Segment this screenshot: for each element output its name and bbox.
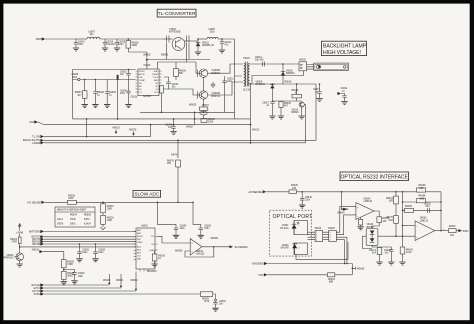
- svg-text:BUZ71A: BUZ71A: [212, 95, 221, 98]
- svg-text:150R: 150R: [70, 219, 76, 221]
- diode V6004: [256, 82, 275, 101]
- diode pair V6046: [366, 224, 378, 245]
- svg-text:LM6132: LM6132: [364, 201, 373, 203]
- resistor R6023: [10, 234, 21, 247]
- svg-text:+5VAB: +5VAB: [32, 141, 40, 145]
- svg-text:R6007: R6007: [202, 105, 209, 107]
- wire op-amp feedback: [185, 247, 229, 257]
- svg-text:HIGH VOLTAGE!: HIGH VOLTAGE!: [323, 50, 361, 56]
- node BATTGROUP input: [29, 230, 136, 234]
- wire collector line: [20, 246, 136, 248]
- table MAIN PCA VERSION IDENT: [55, 207, 95, 227]
- svg-text:100n: 100n: [78, 276, 84, 278]
- svg-text:XP6A E10: XP6A E10: [3, 257, 14, 260]
- op-amp D6063: [415, 218, 435, 241]
- svg-text:+5VAB: +5VAB: [16, 231, 24, 234]
- wire snubber top bus: [272, 100, 301, 102]
- svg-text:W6022: W6022: [103, 280, 111, 282]
- svg-text:100n: 100n: [118, 44, 124, 46]
- svg-text:68R: 68R: [329, 281, 334, 283]
- svg-text:COL2: COL2: [153, 77, 159, 79]
- svg-text:LM6132: LM6132: [420, 220, 429, 222]
- diode V6002: [281, 63, 296, 84]
- resistor R6059: [200, 292, 215, 303]
- svg-text:MTP3055E: MTP3055E: [169, 32, 181, 34]
- svg-text:BUZ71A: BUZ71A: [212, 72, 221, 75]
- svg-text:56K: 56K: [179, 73, 184, 75]
- capacitor C6031b: [76, 243, 89, 262]
- svg-text:BCR8NC: BCR8NC: [256, 84, 266, 86]
- capacitor C6001: [92, 79, 104, 108]
- wire MOSFET sources to rail: [203, 77, 205, 107]
- svg-text:W6012: W6012: [131, 280, 139, 282]
- svg-text:100n: 100n: [180, 228, 186, 230]
- svg-text:R6428: R6428: [405, 206, 412, 208]
- wire: [100, 38, 117, 40]
- transistor Q6002: [3, 246, 23, 267]
- resistor R6471: [362, 245, 382, 265]
- resistor R6467: [449, 226, 459, 237]
- node RETASIST input: [32, 240, 136, 244]
- svg-text:X6040: X6040: [315, 228, 322, 230]
- svg-text:W6033: W6033: [112, 127, 120, 129]
- svg-text:W6013: W6013: [252, 130, 260, 132]
- svg-text:100n: 100n: [98, 252, 104, 254]
- svg-text:100n: 100n: [120, 93, 126, 95]
- svg-text:4: 4: [330, 240, 331, 242]
- resistor R6025b: [278, 101, 292, 119]
- transistor VQ6008: [198, 69, 221, 77]
- svg-text:TEMP: TEMP: [137, 242, 143, 244]
- svg-text:BCUR: BCUR: [137, 236, 143, 238]
- node SHDCLK input: [34, 292, 201, 296]
- led V6406: [280, 243, 307, 255]
- svg-text:R6034: R6034: [70, 214, 77, 216]
- svg-text:4K7: 4K7: [284, 106, 289, 108]
- op-amp U6003: [190, 239, 205, 256]
- svg-text:47u/10V: 47u/10V: [106, 44, 115, 46]
- node EXT.CLK input: [34, 286, 121, 290]
- wire: [117, 38, 163, 40]
- svg-text:150R: 150R: [67, 264, 73, 266]
- node BATTEMP input: [32, 242, 136, 246]
- transistor V6010: [292, 102, 305, 119]
- resistor R6011: [160, 85, 164, 113]
- wire gate drive Q1: [196, 62, 199, 73]
- resistor R6076 riser: [167, 140, 180, 204]
- svg-text:C6016: C6016: [131, 97, 138, 99]
- connector X6040: [308, 228, 323, 242]
- resistor R6064: [327, 264, 352, 284]
- wire IC left feed: [73, 70, 136, 119]
- wire lower rail: [73, 118, 251, 120]
- capacitor C6006: [120, 80, 138, 108]
- op-amp-ic U6000 SG3527: [136, 65, 162, 98]
- svg-text:2740: 2740: [204, 301, 210, 303]
- capacitor C6010: [73, 39, 86, 51]
- svg-text:SLOW ADC: SLOW ADC: [134, 192, 159, 197]
- wire ADC filter risers: [157, 202, 200, 228]
- svg-text:ROSC: ROSC: [139, 71, 145, 73]
- photodiode V6401: [280, 221, 308, 235]
- node W6045 stub: [337, 191, 347, 215]
- connector X6000: [299, 59, 307, 70]
- capacitor C6013: [219, 38, 232, 53]
- wire led return: [296, 242, 348, 260]
- svg-text:100u: 100u: [210, 32, 216, 34]
- svg-text:33p 3KV: 33p 3KV: [255, 59, 264, 61]
- resistor R6423: [386, 191, 398, 216]
- svg-text:CP-KSA: CP-KSA: [280, 227, 289, 230]
- node BATTVOLT input: [31, 235, 136, 239]
- inductor L6007: [87, 32, 100, 39]
- node +5VAB input: [32, 105, 306, 145]
- resistor R6034: [101, 202, 115, 213]
- capacitor C6012: [255, 57, 264, 67]
- resistor R6468 feedback row: [402, 196, 441, 203]
- resistor R6036: [68, 196, 77, 205]
- resistor R6016: [151, 250, 165, 267]
- op-amp D6043: [356, 199, 374, 220]
- resistor R6049: [357, 217, 363, 230]
- wire VBAT rail: [76, 38, 87, 40]
- resistor R6470: [386, 216, 398, 238]
- wire main right rail: [402, 192, 404, 247]
- svg-text:M6002: M6002: [161, 55, 169, 57]
- node W6033 stub: [112, 127, 120, 134]
- svg-text:MA8051-30: MA8051-30: [202, 44, 215, 47]
- svg-text:T6000: T6000: [243, 58, 250, 60]
- resistor R6044: [372, 211, 390, 229]
- svg-text:R6018: R6018: [285, 82, 292, 84]
- capacitor C6017: [313, 83, 323, 101]
- svg-text:GND: GND: [154, 71, 159, 73]
- node TXD line: [258, 273, 327, 277]
- svg-text:W6021: W6021: [116, 280, 124, 282]
- wire op-amp2 inputs: [403, 225, 416, 227]
- svg-text:BR520: BR520: [292, 112, 300, 114]
- svg-text:51R: 51R: [389, 220, 394, 222]
- wire op-amp2 output: [435, 230, 449, 232]
- node W6078 stub: [129, 129, 137, 135]
- capacitor C6015: [120, 69, 131, 80]
- wire internal ground rail: [140, 111, 235, 113]
- svg-text:+IN: +IN: [139, 77, 143, 79]
- svg-text:15K: 15K: [167, 163, 172, 165]
- node +5VSENS line: [251, 262, 352, 266]
- capacitor C6040: [299, 191, 312, 208]
- svg-text:1/8W: 1/8W: [68, 198, 74, 200]
- svg-text:180K: 180K: [107, 209, 113, 211]
- resistor R6428 feedback row2: [402, 206, 441, 212]
- node W6068: [352, 267, 366, 270]
- svg-text:W6030: W6030: [143, 54, 151, 56]
- svg-text:100K: 100K: [208, 122, 214, 124]
- svg-text:100n: 100n: [82, 252, 88, 254]
- svg-text:W6005: W6005: [189, 105, 197, 107]
- wire center-tap feed: [235, 39, 243, 119]
- optical port dashed box: [269, 210, 312, 256]
- svg-text:100n: 100n: [78, 44, 84, 46]
- capacitor C6024b: [198, 226, 212, 239]
- wire Q2 drain to transformer: [208, 82, 243, 95]
- svg-text:CLK: CLK: [137, 255, 142, 257]
- svg-text:TL.ON: TL.ON: [32, 135, 40, 139]
- svg-text:40R2: 40R2: [67, 276, 73, 278]
- capacitor C6008: [72, 74, 81, 81]
- wire left component bus: [73, 79, 136, 81]
- capacitor C6019: [102, 39, 116, 51]
- svg-text:W6068: W6068: [357, 268, 365, 270]
- capacitor C6063: [212, 299, 226, 311]
- resistor R6025: [289, 185, 298, 193]
- svg-text:1C10: 1C10: [406, 252, 412, 254]
- capacitor C6002: [64, 270, 85, 284]
- svg-text:100n: 100n: [72, 77, 78, 79]
- wire Q1 drain to transformer: [208, 64, 243, 73]
- capacitor C6025: [211, 82, 215, 88]
- svg-text:4: 4: [316, 240, 317, 242]
- wire snubber bus: [250, 83, 317, 85]
- capacitor gate right bars: [187, 36, 190, 43]
- svg-text:W6031: W6031: [32, 250, 40, 252]
- svg-text:TXD: TXD: [258, 273, 263, 277]
- svg-text:MR6001: MR6001: [286, 73, 295, 75]
- svg-text:34CM: 34CM: [57, 224, 63, 226]
- node HV SENSE input: [27, 200, 67, 204]
- transistor VT600 MTP3055E: [163, 29, 198, 50]
- capacitor C6024: [164, 77, 179, 89]
- svg-text:OPTICAL PORT: OPTICAL PORT: [273, 214, 313, 220]
- resistor R6026: [292, 83, 302, 101]
- svg-text:SLC19: SLC19: [243, 90, 251, 92]
- svg-text:W6045: W6045: [337, 213, 345, 215]
- svg-text:SLOWADC: SLOWADC: [235, 245, 249, 249]
- resistor R6003: [75, 79, 88, 108]
- svg-text:HV SENSE: HV SENSE: [27, 200, 41, 204]
- svg-text:PGND: PGND: [152, 74, 158, 76]
- svg-text:W6008: W6008: [175, 250, 183, 252]
- svg-text:CALC: CALC: [57, 218, 63, 221]
- node TL.ON input: [32, 124, 151, 139]
- wire ADC bottom risers: [109, 272, 136, 291]
- svg-text:U6000: U6000: [144, 65, 151, 67]
- svg-text:1M0: 1M0: [420, 198, 425, 200]
- capacitor C6004: [173, 226, 187, 239]
- svg-text:R6467: R6467: [449, 226, 456, 228]
- node +5VAB net: [16, 224, 24, 235]
- wire HV sense line: [76, 201, 193, 203]
- svg-text:COMP: COMP: [139, 80, 146, 82]
- resistor R6038: [101, 213, 115, 230]
- capacitor C6021: [337, 88, 348, 104]
- capacitor C6062: [424, 203, 431, 213]
- svg-text:17R: 17R: [292, 188, 297, 190]
- svg-text:54076: 54076: [171, 155, 178, 157]
- svg-text:ACOP: ACOP: [139, 73, 145, 76]
- label BACKLIGHT LAMP HIGH VOLTAGE!: [322, 41, 367, 56]
- wire: [198, 38, 207, 40]
- wire IC top rails: [128, 43, 210, 69]
- wire secondary top to lamp: [250, 63, 300, 65]
- wire gate drive Q2: [162, 89, 200, 95]
- capacitor gate left bars: [167, 36, 170, 43]
- capacitor C6003: [104, 80, 116, 108]
- node SLOWADC output: [229, 245, 248, 249]
- diode V6003 MA8051-30: [195, 38, 215, 55]
- svg-text:RXD: RXD: [463, 229, 469, 233]
- svg-text:W6009: W6009: [211, 238, 219, 240]
- resistor R6007: [199, 105, 209, 119]
- svg-text:4K7: 4K7: [77, 95, 82, 97]
- capacitor C6011: [222, 76, 234, 112]
- svg-text:+5VSENSE: +5VSENSE: [248, 190, 262, 194]
- wire diode mid to left rail: [362, 236, 415, 248]
- wire +5VSEN rail: [297, 191, 441, 193]
- wire op-amp + input: [158, 236, 191, 243]
- svg-text:+5VSENS: +5VSENS: [251, 262, 263, 266]
- capacitor C6007: [262, 101, 275, 119]
- wire bus dropper: [86, 75, 119, 138]
- svg-text:SFL409: SFL409: [280, 248, 289, 250]
- svg-text:2K4: 2K4: [372, 252, 377, 254]
- node +5VSEN input: [248, 190, 289, 194]
- resistor R6020: [62, 260, 75, 272]
- resistor R6060: [201, 119, 215, 124]
- svg-text:K1434: K1434: [84, 224, 91, 226]
- svg-text:BACKLIGHT LAMP: BACKLIGHT LAMP: [323, 44, 367, 50]
- svg-text:120n: 120n: [305, 200, 311, 202]
- wire right enclosure: [315, 84, 317, 140]
- resistor R6469: [417, 185, 426, 192]
- resistor R6404: [399, 247, 413, 265]
- capacitor C6018: [165, 118, 177, 134]
- node BATTCUR input: [32, 238, 136, 242]
- node +5VD input: [29, 120, 251, 124]
- capacitor C6420: [380, 247, 395, 265]
- label TL-CONVERTER: [157, 9, 196, 17]
- inductor L6000: [207, 29, 218, 39]
- resistor R6006: [174, 62, 187, 80]
- wire connector pin4 to +5VSENS: [336, 237, 347, 263]
- svg-text:R6038: R6038: [84, 214, 91, 216]
- svg-text:560R: 560R: [132, 45, 138, 47]
- svg-text:P10: P10: [426, 206, 431, 208]
- node BACKLIGHTS input: [23, 138, 316, 142]
- svg-text:43H0: 43H0: [84, 219, 90, 221]
- capacitor C6032: [92, 243, 105, 262]
- wire feedback vertical: [440, 192, 442, 231]
- svg-text:CLS: CLS: [154, 92, 159, 94]
- svg-text:1K: 1K: [158, 258, 161, 260]
- svg-text:1M2: 1M2: [388, 200, 393, 202]
- node W6013 riser: [250, 83, 260, 143]
- svg-text:GND: GND: [150, 250, 155, 252]
- wire lamp return: [252, 71, 304, 84]
- wire: [218, 38, 234, 40]
- svg-text:MAIN PCA VERSION IDENT: MAIN PCA VERSION IDENT: [57, 209, 87, 212]
- svg-text:120n: 120n: [227, 81, 233, 83]
- svg-text:W6040: W6040: [341, 209, 349, 211]
- node VBAT input: [36, 37, 76, 41]
- svg-text:W6027: W6027: [186, 126, 194, 128]
- node EXT.DATA input: [32, 289, 136, 293]
- svg-text:10K: 10K: [383, 221, 388, 223]
- node EXT.GEAR input: [32, 283, 110, 287]
- svg-text:63K5: 63K5: [70, 224, 76, 226]
- capacitor C6029: [114, 39, 126, 51]
- svg-text:U6001: U6001: [141, 226, 148, 228]
- wire rail link W6027: [186, 112, 195, 129]
- label OPTICAL RS232 INTERFACE: [340, 172, 409, 181]
- connector X6400: [323, 228, 337, 242]
- label SLOW ADC: [133, 190, 161, 197]
- svg-text:W6078: W6078: [129, 129, 137, 131]
- resistor R6012: [61, 271, 75, 284]
- svg-text:470R: 470R: [12, 241, 18, 243]
- svg-text:X6400: X6400: [328, 228, 335, 230]
- backlight lamp: [314, 63, 349, 70]
- node RXD output: [458, 229, 468, 233]
- svg-text:SG3527: SG3527: [143, 96, 152, 98]
- resistor R6008: [126, 38, 139, 52]
- svg-text:OPTICAL RS232 INTERFACE: OPTICAL RS232 INTERFACE: [341, 174, 409, 180]
- adc-ic U6001 TMC6003: [134, 226, 158, 273]
- svg-text:VO: VO: [151, 236, 154, 238]
- svg-text:LM6132: LM6132: [196, 253, 205, 255]
- transformer T6000: [243, 58, 251, 91]
- svg-text:TL-CONVERTER: TL-CONVERTER: [158, 11, 196, 17]
- lamp connector pins: [307, 65, 314, 70]
- node +5V arrow: [32, 250, 64, 260]
- transistor VQ6009: [198, 91, 221, 99]
- svg-text:100K: 100K: [107, 220, 113, 222]
- wire connector to op-amp1: [336, 207, 356, 235]
- svg-text:100n: 100n: [204, 228, 210, 230]
- svg-text:X6000: X6000: [299, 59, 306, 61]
